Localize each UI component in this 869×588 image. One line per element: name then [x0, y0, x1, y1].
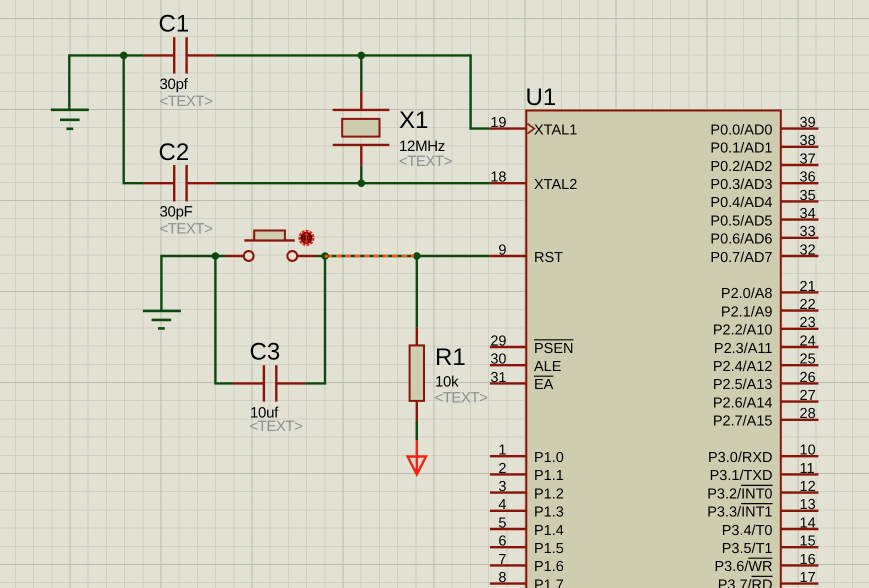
- wire: branch down from top rail to C2 left: [124, 55, 144, 183]
- svg-text:6: 6: [498, 534, 506, 550]
- junction: XTAL2 net / crystal bottom: [358, 179, 366, 187]
- junction: button left / C3 left branch: [212, 252, 220, 260]
- pin 24 (P2.3/A11): [781, 346, 819, 348]
- pin 2 (P1.1): [490, 473, 526, 475]
- pin 11 (P3.1/TXD): [781, 473, 819, 475]
- svg-text:P3.4/T0: P3.4/T0: [722, 523, 773, 539]
- wire: crystal bottom stub to XTAL2 net: [360, 166, 362, 184]
- svg-text:P1.5: P1.5: [534, 541, 564, 557]
- svg-text:39: 39: [800, 115, 816, 131]
- pin 30 (ALE): [490, 364, 526, 366]
- pin 15 (P3.5/T1): [781, 546, 819, 548]
- pin 14 (P3.4/T0): [781, 528, 819, 530]
- pin 37 (P0.2/AD2): [781, 164, 819, 166]
- svg-text:P3.3/INT1: P3.3/INT1: [707, 505, 772, 521]
- svg-text:2: 2: [498, 461, 506, 477]
- svg-text:37: 37: [800, 151, 816, 167]
- pin 10 (P3.0/RXD): [781, 455, 819, 457]
- svg-text:P0.4/AD4: P0.4/AD4: [710, 195, 772, 211]
- pin 27 (P2.6/A14): [781, 400, 819, 402]
- svg-text:36: 36: [800, 170, 816, 186]
- pin 6 (P1.5): [490, 546, 526, 548]
- pin 21 (P2.0/A8): [781, 291, 819, 293]
- svg-text:18: 18: [490, 170, 506, 186]
- svg-text:ALE: ALE: [534, 359, 562, 375]
- svg-text:17: 17: [800, 570, 816, 586]
- svg-text:P0.1/AD1: P0.1/AD1: [710, 141, 772, 157]
- svg-text:P2.0/A8: P2.0/A8: [721, 286, 773, 302]
- svg-text:35: 35: [800, 188, 816, 204]
- wire: top rail down to crystal top stub: [360, 55, 362, 91]
- wire: RST net from button junction to RST pin: [325, 255, 490, 257]
- svg-text:30: 30: [490, 352, 506, 368]
- pin 7 (P1.6): [490, 564, 526, 566]
- svg-text:XTAL1: XTAL1: [534, 122, 577, 138]
- junction: button right / C3 right branch: [321, 252, 329, 260]
- pin 33 (P0.6/AD6): [781, 237, 819, 239]
- svg-text:22: 22: [800, 297, 816, 313]
- svg-text:P1.1: P1.1: [534, 468, 564, 484]
- svg-text:27: 27: [800, 388, 816, 404]
- svg-text:28: 28: [800, 406, 816, 422]
- wire: GND1 up to top net, left segment of top rail: [69, 55, 144, 109]
- svg-text:38: 38: [800, 133, 816, 149]
- svg-text:<TEXT>: <TEXT>: [250, 418, 304, 435]
- svg-text:U1: U1: [526, 84, 557, 111]
- svg-text:C1: C1: [159, 11, 190, 38]
- wire: R1 bottom lead segment: [416, 401, 418, 440]
- pin 3 (P1.2): [490, 491, 526, 493]
- junction: top rail / crystal top: [358, 52, 366, 60]
- power/ground terminal (red arrow) below R1: [408, 440, 426, 474]
- svg-text:23: 23: [800, 315, 816, 331]
- svg-text:XTAL2: XTAL2: [534, 177, 577, 193]
- svg-text:P0.2/AD2: P0.2/AD2: [710, 159, 772, 175]
- svg-text:R1: R1: [435, 344, 466, 371]
- svg-text:31: 31: [490, 370, 506, 386]
- pin 8 (P1.7): [490, 582, 526, 584]
- svg-text:P2.7/A15: P2.7/A15: [713, 414, 773, 430]
- svg-text:15: 15: [800, 534, 816, 550]
- svg-text:13: 13: [800, 497, 816, 513]
- svg-text:EA: EA: [534, 377, 554, 393]
- svg-text:11: 11: [800, 461, 815, 477]
- svg-text:16: 16: [800, 552, 816, 568]
- button actuator marker (red circle with up-down arrow): [299, 231, 313, 245]
- svg-text:X1: X1: [399, 107, 428, 134]
- pin 4 (P1.3): [490, 510, 526, 512]
- svg-text:P2.5/A13: P2.5/A13: [713, 377, 773, 393]
- svg-text:9: 9: [498, 242, 506, 258]
- svg-text:30pF: 30pF: [160, 204, 193, 221]
- svg-text:5: 5: [498, 515, 506, 531]
- svg-text:P2.6/A14: P2.6/A14: [713, 395, 773, 411]
- svg-text:32: 32: [800, 242, 816, 258]
- pin 5 (P1.4): [490, 528, 526, 530]
- pin 32 (P0.7/AD7): [781, 255, 819, 257]
- pin 31 (EA): [490, 382, 526, 384]
- svg-text:P2.1/A9: P2.1/A9: [721, 304, 773, 320]
- svg-text:P2.4/A12: P2.4/A12: [713, 359, 773, 375]
- svg-text:21: 21: [800, 279, 816, 295]
- svg-text:19: 19: [490, 115, 506, 131]
- svg-text:26: 26: [800, 370, 816, 386]
- pin 19 (XTAL1): [490, 127, 526, 129]
- junction: RST net / R1 branch: [413, 252, 421, 260]
- svg-text:29: 29: [490, 333, 506, 349]
- svg-text:34: 34: [800, 206, 816, 222]
- svg-text:<TEXT>: <TEXT>: [160, 221, 214, 238]
- capacitor C2: [144, 165, 216, 201]
- svg-text:P3.2/INT0: P3.2/INT0: [707, 486, 772, 502]
- pin 17 (P3.7/RD): [781, 582, 819, 584]
- svg-text:10k: 10k: [435, 373, 459, 390]
- capacitor C1: [144, 37, 216, 73]
- pin 22 (P2.1/A9): [781, 309, 819, 311]
- wire: down from RST net to C3 right: [305, 256, 325, 383]
- ground GND2: [143, 311, 181, 329]
- pin 25 (P2.4/A12): [781, 364, 819, 366]
- svg-text:P3.5/T1: P3.5/T1: [722, 541, 773, 557]
- svg-text:P0.5/AD5: P0.5/AD5: [710, 213, 772, 229]
- pin 35 (P0.4/AD4): [781, 200, 819, 202]
- wire: button right to junction: [316, 255, 325, 257]
- svg-text:<TEXT>: <TEXT>: [435, 390, 489, 407]
- wire: RST net down to R1 top: [416, 256, 418, 327]
- pin 16 (P3.6/WR): [781, 564, 819, 566]
- XTAL1 clock arrow inside chip edge: [528, 124, 535, 134]
- svg-text:7: 7: [498, 552, 506, 568]
- junction: top rail / C2 branch: [120, 52, 128, 60]
- pin 1 (P1.0): [490, 455, 526, 457]
- svg-text:10: 10: [800, 443, 816, 459]
- pin 39 (P0.0/AD0): [781, 127, 819, 129]
- svg-text:24: 24: [800, 333, 816, 349]
- selection origin marker (orange) on junction: [325, 255, 328, 258]
- svg-text:P1.6: P1.6: [534, 559, 564, 575]
- resistor R1: [410, 327, 424, 401]
- svg-text:33: 33: [800, 224, 816, 240]
- svg-text:P0.6/AD6: P0.6/AD6: [710, 232, 772, 248]
- svg-text:P0.0/AD0: P0.0/AD0: [710, 122, 772, 138]
- wire: GND2 up and right to button left: [161, 256, 225, 311]
- pin 18 (XTAL2): [490, 182, 526, 184]
- svg-text:P3.0/RXD: P3.0/RXD: [708, 450, 772, 466]
- pin 23 (P2.2/A10): [781, 328, 819, 330]
- svg-text:C2: C2: [159, 139, 190, 166]
- svg-text:P1.4: P1.4: [534, 523, 564, 539]
- svg-text:P3.6/WR: P3.6/WR: [714, 559, 772, 575]
- svg-text:RST: RST: [534, 250, 563, 266]
- svg-text:P3.1/TXD: P3.1/TXD: [710, 468, 773, 484]
- wire: top rail right of C1 down to XTAL1 pin: [215, 55, 490, 128]
- push button (reset switch): [225, 231, 316, 261]
- crystal X1: [333, 92, 390, 166]
- pin 34 (P0.5/AD5): [781, 218, 819, 220]
- ground GND1: [51, 110, 89, 129]
- pin 9 (RST): [490, 255, 526, 257]
- pin 36 (P0.3/AD3): [781, 182, 819, 184]
- pin 26 (P2.5/A13): [781, 382, 819, 384]
- pin 38 (P0.1/AD1): [781, 146, 819, 148]
- capacitor C3: [233, 365, 305, 401]
- svg-text:1: 1: [498, 443, 506, 459]
- pin 13 (P3.3/INT1): [781, 510, 819, 512]
- wire: down from button-left junction to C3 left: [215, 256, 233, 383]
- svg-text:C3: C3: [250, 339, 281, 366]
- selected-wire highlight (orange dashes) on RST net: [327, 255, 417, 257]
- svg-text:30pf: 30pf: [160, 76, 189, 93]
- svg-text:12: 12: [800, 479, 816, 495]
- svg-text:P1.7: P1.7: [534, 577, 564, 588]
- op-amp U1 body (8051 MCU): [526, 111, 781, 588]
- svg-text:P1.3: P1.3: [534, 505, 564, 521]
- svg-text:P2.3/A11: P2.3/A11: [714, 341, 773, 357]
- svg-text:P1.0: P1.0: [534, 450, 564, 466]
- svg-text:P1.2: P1.2: [534, 486, 564, 502]
- svg-text:14: 14: [800, 515, 816, 531]
- wire: green segment between R1 bottom and power terminal: [416, 421, 418, 440]
- svg-text:P0.7/AD7: P0.7/AD7: [710, 250, 772, 266]
- pin 29 (PSEN): [490, 346, 526, 348]
- svg-text:P0.3/AD3: P0.3/AD3: [710, 177, 772, 193]
- svg-text:P2.2/A10: P2.2/A10: [713, 323, 773, 339]
- pin 12 (P3.2/INT0): [781, 491, 819, 493]
- svg-text:<TEXT>: <TEXT>: [160, 93, 214, 110]
- svg-text:<TEXT>: <TEXT>: [399, 153, 453, 170]
- wire: C2 right to XTAL2 pin (through crystal bottom junction): [215, 182, 490, 184]
- svg-text:25: 25: [800, 352, 816, 368]
- pin 28 (P2.7/A15): [781, 419, 819, 421]
- svg-text:8: 8: [498, 570, 506, 586]
- svg-text:P3.7/RD: P3.7/RD: [718, 577, 773, 588]
- svg-text:PSEN: PSEN: [534, 341, 574, 357]
- svg-text:3: 3: [498, 479, 506, 495]
- svg-text:4: 4: [498, 497, 506, 513]
